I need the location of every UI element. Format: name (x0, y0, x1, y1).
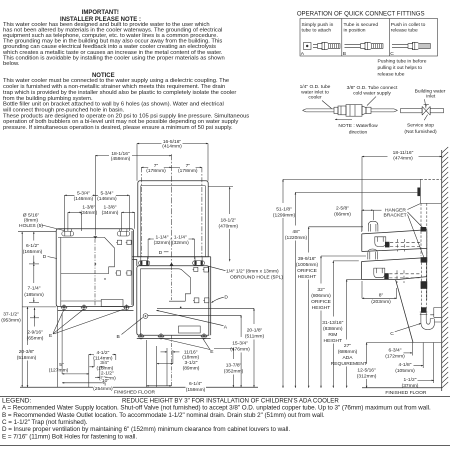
svg-text:5": 5" (59, 362, 64, 368)
svg-text:OPERATION OF QUICK CONNECT FIT: OPERATION OF QUICK CONNECT FITTINGS (297, 10, 425, 17)
svg-text:D = Insure proper ventilation: D = Insure proper ventilation by maintai… (2, 426, 290, 433)
svg-text:(89mm): (89mm) (183, 366, 200, 372)
body outline (137, 259, 209, 335)
svg-text:(165mm): (165mm) (23, 249, 43, 255)
svg-text:Push in collet to: Push in collet to (391, 22, 426, 28)
svg-text:18-1/2": 18-1/2" (220, 217, 236, 223)
svg-text:39-9/16": 39-9/16" (298, 256, 317, 262)
svg-text:11/16": 11/16" (184, 349, 198, 355)
top plate (133, 256, 211, 258)
svg-text:1-1/4": 1-1/4" (156, 235, 169, 241)
svg-text:13-7/8": 13-7/8" (226, 363, 242, 369)
svg-text:(203mm): (203mm) (371, 299, 391, 305)
svg-text:(Not furnished): (Not furnished) (404, 129, 437, 135)
upper unit profile (362, 230, 427, 262)
svg-text:(185mm): (185mm) (24, 292, 44, 298)
37-1/2 (21, 232, 23, 388)
svg-text:(32mm): (32mm) (154, 240, 171, 246)
svg-text:5-3/4": 5-3/4" (100, 191, 113, 197)
svg-text:1-3/8": 1-3/8" (82, 205, 95, 211)
louver rect (179, 326, 201, 333)
svg-text:(806mm): (806mm) (311, 293, 331, 299)
svg-text:(172mm): (172mm) (385, 354, 405, 360)
svg-text:20-1/8": 20-1/8" (247, 328, 263, 334)
svg-text:(518mm): (518mm) (17, 355, 37, 361)
svg-text:Ø 5/16": Ø 5/16" (23, 212, 40, 218)
39-9/16 (309, 226, 363, 228)
svg-text:(65mm): (65mm) (27, 336, 44, 342)
svg-text:(459mm): (459mm) (111, 156, 131, 162)
bolt circles (138, 333, 207, 339)
slots on plate (139, 257, 205, 266)
svg-text:HANGER: HANGER (385, 207, 406, 213)
27 ADA (347, 278, 362, 280)
svg-text:(127mm): (127mm) (49, 367, 69, 373)
fitting C (392, 42, 431, 49)
svg-text:C = 1-1/2" Trap (not furnished: C = 1-1/2" Trap (not furnished). (2, 419, 88, 426)
svg-text:D: D (43, 254, 47, 260)
svg-text:3/8" O.D. Tube connect: 3/8" O.D. Tube connect (347, 85, 398, 91)
svg-text:(32mm): (32mm) (172, 240, 189, 246)
svg-text:1-1/2": 1-1/2" (404, 377, 417, 383)
2-9/16 (34, 308, 36, 318)
svg-text:1-1/4": 1-1/4" (174, 235, 187, 241)
left unit outline (56, 229, 133, 307)
inner contour left unit (58, 237, 115, 273)
16-5/16 dim (137, 143, 208, 145)
svg-text:A = Recommended Water Supply l: A = Recommended Water Supply location. S… (2, 405, 431, 412)
svg-text:18-1/16": 18-1/16" (111, 151, 130, 157)
svg-text:4-1/2": 4-1/2" (96, 350, 109, 356)
svg-text:(511mm): (511mm) (245, 334, 265, 340)
svg-text:D: D (159, 250, 163, 256)
floor (20, 386, 258, 388)
left unit top slots (62, 229, 130, 236)
svg-text:(1005mm): (1005mm) (296, 262, 319, 268)
svg-text:tube to attach: tube to attach (302, 27, 332, 33)
svg-text:REQUIREMENT: REQUIREMENT (331, 361, 367, 367)
12-5/16 (366, 343, 368, 365)
svg-text:(352mm): (352mm) (224, 369, 244, 375)
svg-text:ADA: ADA (342, 355, 353, 361)
svg-text:IMPORTANT!: IMPORTANT! (82, 10, 119, 16)
10 (62, 382, 105, 384)
fitting B (345, 42, 384, 49)
louver rect left unit (101, 300, 123, 307)
svg-text:4-1/8": 4-1/8" (399, 362, 412, 368)
table (300, 19, 438, 57)
svg-text:REDUCE HEIGHT BY 3" FOR INSTAL: REDUCE HEIGHT BY 3" FOR INSTALLATION OF … (122, 397, 339, 404)
3-1/2 (157, 363, 173, 365)
floor right (362, 387, 442, 389)
svg-text:C: C (390, 331, 394, 337)
svg-text:(1220mm): (1220mm) (285, 235, 308, 241)
drop lines left unit (58, 307, 116, 388)
32 (321, 255, 366, 257)
svg-text:3-1/2": 3-1/2" (185, 360, 198, 366)
18-1/2 dim (208, 186, 233, 188)
svg-text:inlet: inlet (426, 94, 436, 100)
svg-text:HEIGHT: HEIGHT (312, 305, 330, 311)
tiny ref dots (104, 278, 105, 279)
20-3/8 (22, 306, 56, 308)
svg-text:pressure. If simultaneous oper: pressure. If simultaneous operation is d… (3, 125, 233, 131)
svg-text:in position: in position (344, 27, 366, 33)
svg-text:15-3/4": 15-3/4" (232, 341, 248, 347)
svg-text:FINISHED FLOOR: FINISHED FLOOR (385, 390, 426, 396)
svg-text:HEIGHT: HEIGHT (298, 274, 316, 280)
svg-text:(66mm): (66mm) (334, 211, 351, 217)
svg-text:6-1/4": 6-1/4" (189, 381, 202, 387)
svg-text:(8mm): (8mm) (24, 218, 38, 224)
small square holes left unit (115, 240, 131, 275)
small squares (193, 267, 209, 303)
svg-text:32": 32" (317, 287, 324, 293)
svg-text:(178mm): (178mm) (178, 168, 198, 174)
svg-text:HEIGHT: HEIGHT (324, 338, 342, 344)
bolt holes E left unit (61, 304, 130, 310)
svg-text:Service stop: Service stop (407, 123, 434, 129)
svg-text:1/4" 1/2" (8mm x 13mm): 1/4" 1/2" (8mm x 13mm) (226, 269, 279, 275)
svg-text:27": 27" (344, 343, 351, 349)
svg-text:(37mm): (37mm) (402, 383, 419, 389)
8 inch dim (361, 281, 363, 298)
svg-text:(34mm): (34mm) (80, 210, 97, 216)
svg-text:B: B (343, 51, 346, 57)
lower unit profile (362, 258, 427, 343)
svg-text:water inlet to: water inlet to (301, 89, 329, 95)
svg-text:Pushing tube in before: Pushing tube in before (378, 59, 427, 65)
6-1/4 (147, 385, 172, 387)
7 inch dims (141, 166, 171, 168)
svg-text:(474mm): (474mm) (393, 156, 413, 162)
fitting A (304, 42, 341, 49)
svg-text:RIM: RIM (328, 332, 337, 338)
svg-text:(312mm): (312mm) (357, 374, 377, 380)
svg-text:8": 8" (379, 293, 384, 299)
strainer tube (303, 105, 398, 117)
svg-text:(146mm): (146mm) (74, 196, 94, 202)
svg-text:OBROUND HOLE (5PL): OBROUND HOLE (5PL) (230, 275, 283, 281)
svg-text:C: C (390, 51, 394, 57)
svg-text:direction: direction (349, 129, 368, 135)
svg-text:(105mm): (105mm) (395, 368, 415, 374)
svg-text:(159mm): (159mm) (186, 387, 206, 393)
svg-text:Building water: Building water (415, 88, 446, 94)
svg-text:(178mm): (178mm) (146, 168, 166, 174)
48 (295, 191, 417, 193)
svg-text:LEGEND:: LEGEND: (2, 397, 32, 404)
svg-text:31-13/16": 31-13/16" (322, 320, 343, 326)
center triangle mark left unit (93, 236, 97, 239)
4-1/2 (89, 354, 116, 356)
svg-text:below.: below. (3, 61, 20, 67)
svg-text:Simply push in: Simply push in (302, 22, 334, 28)
supply dot + A leader (156, 310, 223, 325)
svg-text:(953mm): (953mm) (1, 317, 21, 323)
1-1/4 dims (148, 238, 171, 240)
svg-text:5-3/4": 5-3/4" (77, 191, 90, 197)
svg-text:20-3/8": 20-3/8" (19, 349, 35, 355)
svg-text:(254mm): (254mm) (93, 386, 113, 392)
11/16 (161, 351, 168, 353)
svg-text:(34mm): (34mm) (102, 210, 119, 216)
svg-text:2-9/16": 2-9/16" (27, 330, 43, 336)
svg-text:1/4" O.D. tube: 1/4" O.D. tube (300, 84, 331, 90)
underside line (367, 342, 442, 344)
right unit drops (147, 340, 173, 387)
service stop tube (401, 105, 444, 116)
51-1/8 (283, 178, 420, 180)
svg-text:(686mm): (686mm) (338, 349, 358, 355)
svg-text:18-11/16": 18-11/16" (393, 150, 414, 156)
svg-text:This condition is avoidable by: This condition is avoidable by installin… (3, 55, 225, 61)
svg-text:51-1/8": 51-1/8" (276, 206, 292, 212)
svg-text:ORIFICE: ORIFICE (311, 299, 332, 305)
svg-text:7": 7" (154, 163, 159, 169)
svg-text:D: D (224, 294, 228, 300)
svg-text:2-5/8": 2-5/8" (336, 205, 349, 211)
svg-text:1-3/8": 1-3/8" (104, 205, 117, 211)
svg-text:(146mm): (146mm) (97, 196, 117, 202)
svg-text:(838mm): (838mm) (323, 326, 343, 332)
svg-text:cooler: cooler (308, 95, 322, 101)
trap (421, 313, 441, 330)
svg-text:pulling it out helps to: pulling it out helps to (378, 65, 423, 71)
svg-text:Tube is secured: Tube is secured (344, 22, 379, 28)
svg-text:10": 10" (102, 378, 109, 384)
svg-text:(470mm): (470mm) (219, 223, 239, 229)
svg-text:6-3/4": 6-3/4" (389, 348, 402, 354)
svg-text:37-1/2": 37-1/2" (3, 311, 19, 317)
svg-text:B = Recommended Waste Outlet l: B = Recommended Waste Outlet location. T… (2, 412, 325, 419)
top box (420, 179, 441, 203)
svg-text:ORIFICE: ORIFICE (297, 268, 318, 274)
svg-text:(18mm): (18mm) (182, 355, 199, 361)
svg-text:48": 48" (292, 229, 299, 235)
31-13/16 (333, 260, 359, 262)
svg-text:(1299mm): (1299mm) (273, 212, 296, 218)
svg-text:cold water supply: cold water supply (353, 90, 391, 96)
svg-text:B: B (117, 334, 120, 340)
svg-text:NOTE : Waterflow: NOTE : Waterflow (338, 123, 378, 129)
svg-text:12-5/16": 12-5/16" (357, 368, 376, 374)
svg-text:7-1/4": 7-1/4" (28, 286, 41, 292)
svg-text:release tube: release tube (378, 72, 405, 78)
wall + hatch (441, 150, 443, 391)
svg-text:7": 7" (186, 163, 191, 169)
svg-text:HOLES (5): HOLES (5) (19, 223, 43, 229)
inner contour (140, 269, 190, 301)
18-1/16 dim (95, 155, 171, 157)
waste outlet circle B (143, 314, 148, 319)
svg-text:release tube: release tube (391, 27, 418, 33)
svg-text:BRACKET: BRACKET (384, 213, 407, 219)
svg-text:FINISHED FLOOR: FINISHED FLOOR (114, 390, 155, 396)
svg-text:3/4": 3/4" (100, 360, 109, 366)
svg-text:E = 7/16" (11mm) Bolt Holes fo: E = 7/16" (11mm) Bolt Holes for fastenin… (2, 433, 137, 440)
svg-text:(414mm): (414mm) (162, 144, 182, 150)
svg-text:6-1/2": 6-1/2" (26, 243, 39, 249)
5-3/4 dims (65, 194, 96, 196)
